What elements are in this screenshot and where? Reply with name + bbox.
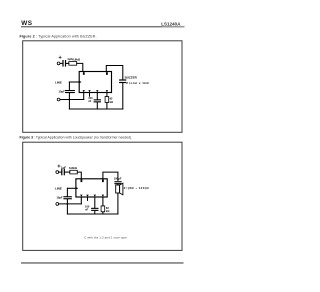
node junction dot fig3 xyxy=(67,203,69,205)
svg-text:Figure 2 : Typical Application: Figure 2 : Typical Application with BUZZ… xyxy=(20,35,97,39)
svg-text:6.8kΩ: 6.8kΩ xyxy=(69,166,78,170)
node LINE terminal 1 xyxy=(57,62,60,65)
capacitor C1 xyxy=(62,60,66,67)
wire xyxy=(59,203,82,205)
wire xyxy=(68,82,70,90)
capacitor C2 10uF xyxy=(65,90,75,93)
wire xyxy=(60,62,62,64)
wire xyxy=(68,93,70,109)
svg-text:WS: WS xyxy=(21,20,32,27)
C1 polarity + fig3 xyxy=(58,165,60,167)
C1 polarity + xyxy=(59,56,61,58)
node junction dot xyxy=(69,99,71,101)
svg-text:C with the 1.2 and 1 note type: C with the 1.2 and 1 note type xyxy=(84,236,127,240)
wire xyxy=(96,102,98,109)
pin stub bottom 2 fig3 xyxy=(87,197,89,200)
wire bottom rail xyxy=(69,108,122,110)
node LINE terminal 1 fig3 xyxy=(56,171,59,174)
pin pads and arrows U2 xyxy=(76,180,104,197)
figure 3 frame xyxy=(23,142,182,250)
wire xyxy=(117,183,119,186)
svg-text:Figure 3 : Typical Application: Figure 3 : Typical Application with Loud… xyxy=(20,136,133,140)
loudspeaker LS1 xyxy=(116,183,123,195)
wire xyxy=(77,172,81,179)
capacitor C2 10uF fig3 xyxy=(63,196,72,199)
svg-text:100μF: 100μF xyxy=(114,177,122,181)
pin pads and arrows U1 xyxy=(80,72,109,92)
wire xyxy=(66,199,68,214)
capacitor C1 fig3 xyxy=(61,169,65,176)
svg-text:nF: nF xyxy=(85,208,89,212)
capacitor C3 fig3 xyxy=(91,208,98,211)
pin stub bottom 3 fig3 xyxy=(94,197,96,208)
wire xyxy=(77,63,83,71)
wire IC left pin fig3 xyxy=(67,187,76,189)
svg-text:LINE: LINE xyxy=(55,187,62,191)
wire IC left pin xyxy=(69,81,79,83)
resistor R1 fig3 xyxy=(70,170,78,174)
svg-text:Z=(8Ω ÷ 100)Ω: Z=(8Ω ÷ 100)Ω xyxy=(124,186,150,190)
wire xyxy=(65,171,70,173)
wire xyxy=(60,99,84,101)
header rule xyxy=(21,26,185,27)
IC U2 LS1240A xyxy=(76,179,107,197)
svg-text:1μF: 1μF xyxy=(61,166,66,170)
wire xyxy=(66,62,69,64)
node LINE terminal 2 xyxy=(57,98,60,101)
capacitor C4 100uF xyxy=(114,181,121,184)
svg-text:kΩ: kΩ xyxy=(110,100,114,104)
pin stub bottom 1 fig3 xyxy=(80,197,82,204)
figure 2 frame xyxy=(23,41,182,133)
wire output riser to speaker xyxy=(103,172,118,180)
svg-text:kΩ: kΩ xyxy=(106,209,110,213)
svg-text:10μF: 10μF xyxy=(56,196,63,200)
wire xyxy=(106,102,108,109)
pin stub bottom 1 xyxy=(83,93,85,100)
svg-text:6.8kΩ: 6.8kΩ xyxy=(72,57,81,61)
resistor R2 fig3 xyxy=(101,206,105,212)
svg-text:LINE: LINE xyxy=(55,80,62,84)
capacitor C3 xyxy=(94,99,101,102)
svg-text:BUZZER: BUZZER xyxy=(125,75,138,79)
footer rule xyxy=(21,262,184,264)
svg-text:nF: nF xyxy=(88,99,92,103)
resistor R1 xyxy=(69,62,77,66)
pin stub bottom 3 xyxy=(96,93,98,100)
wire xyxy=(94,211,96,214)
wire xyxy=(102,212,104,214)
wire xyxy=(59,171,61,173)
buzzer BZ1 xyxy=(119,79,126,83)
wire riser to buzzer xyxy=(106,66,123,80)
resistor R2 xyxy=(105,97,109,103)
IC U1 LS1240A xyxy=(79,72,111,93)
pin stub bottom 2 xyxy=(89,93,91,97)
part number underline xyxy=(162,26,185,28)
wire bottom rail fig3 xyxy=(67,213,118,215)
wire buzzer down xyxy=(122,83,124,109)
svg-text:10μF: 10μF xyxy=(59,89,66,93)
pin stub bottom 4 xyxy=(106,93,108,97)
node LINE terminal 2 fig3 xyxy=(56,203,59,206)
wire xyxy=(117,193,119,214)
pin stub bottom 4 fig3 xyxy=(102,197,104,206)
svg-text:Z total ≥ 1kΩ: Z total ≥ 1kΩ xyxy=(126,81,149,85)
wire xyxy=(66,188,68,196)
